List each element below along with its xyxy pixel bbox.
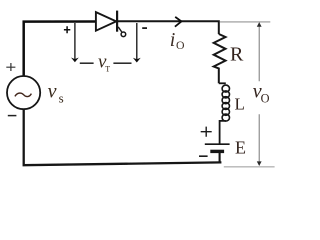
svg-text:O: O [176,38,185,52]
svg-text:E: E [235,138,246,158]
svg-text:i: i [170,29,176,51]
svg-text:T: T [105,64,110,73]
svg-text:v: v [48,81,57,103]
svg-text:O: O [261,92,270,106]
svg-text:L: L [235,95,245,114]
svg-text:s: s [59,90,64,105]
svg-text:R: R [230,44,244,66]
